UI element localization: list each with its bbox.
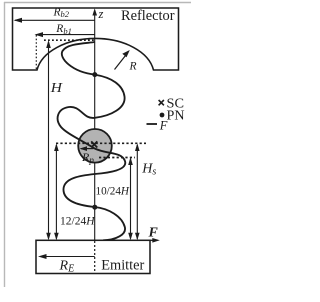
svg-text:F: F	[148, 225, 159, 240]
svg-text:R: R	[129, 61, 137, 73]
svg-text:z: z	[98, 7, 104, 21]
svg-text:Rb1: Rb1	[55, 23, 72, 36]
svg-text:10/24H: 10/24H	[96, 186, 130, 198]
svg-text:Rb2: Rb2	[53, 6, 70, 19]
svg-text:Emitter: Emitter	[101, 256, 144, 273]
svg-text:PN: PN	[167, 108, 185, 123]
svg-text:Reflector: Reflector	[121, 7, 175, 24]
svg-text:H: H	[50, 81, 63, 96]
svg-text:12/24H: 12/24H	[60, 216, 95, 228]
svg-text:F: F	[159, 118, 168, 132]
